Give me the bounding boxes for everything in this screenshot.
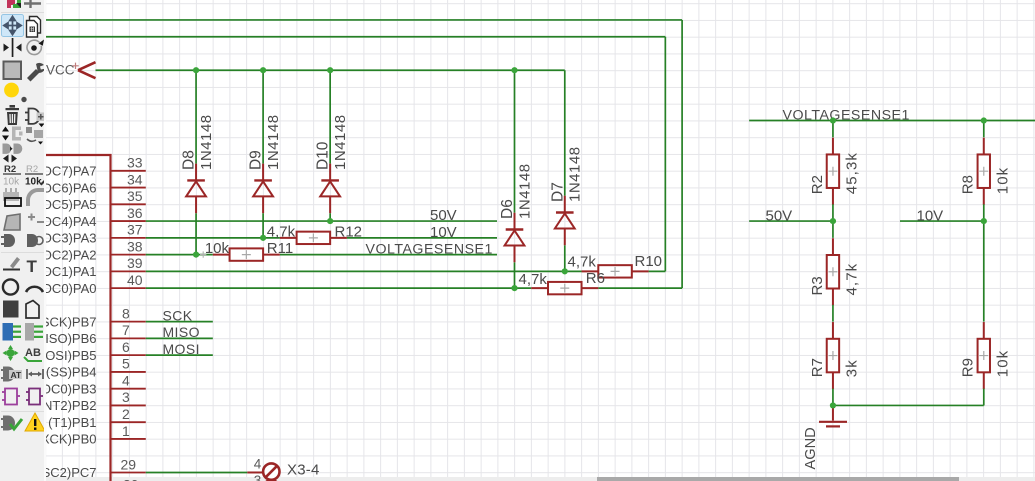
pin 39 (ADC1)PA1 xyxy=(30,255,146,279)
toolbar icon junction xyxy=(3,345,19,361)
svg-text:AT: AT xyxy=(11,370,23,380)
junction D7-PA1 xyxy=(562,268,568,274)
resistor R8 xyxy=(978,138,990,205)
pin 3 (INT2)PB2 xyxy=(35,389,146,413)
svg-text:R2: R2 xyxy=(809,175,826,194)
svg-text:4: 4 xyxy=(254,456,262,471)
svg-text:4,7k: 4,7k xyxy=(844,263,861,296)
toolbar icon circle xyxy=(3,279,18,294)
toolbar icon bus xyxy=(3,323,22,341)
svg-text:D7: D7 xyxy=(549,182,566,202)
svg-text:8: 8 xyxy=(122,305,130,321)
supply symbol VCC xyxy=(46,62,96,78)
pin 7 (MISO)PB6 xyxy=(30,322,146,346)
resistor R12 xyxy=(280,232,347,244)
toolbar icon gate right xyxy=(27,234,43,247)
junction VCC-D8 xyxy=(193,67,199,73)
svg-text:R8: R8 xyxy=(960,175,977,194)
ground symbol AGND xyxy=(803,405,847,469)
svg-text:VOLTAGESENSE1: VOLTAGESENSE1 xyxy=(366,242,493,258)
wire R3 to R7 xyxy=(832,305,834,322)
toolbar icon move (selected) xyxy=(2,15,24,37)
svg-text:(OC0)PB3: (OC0)PB3 xyxy=(46,381,97,396)
svg-text:4,7k: 4,7k xyxy=(519,271,548,288)
wire PC7 to X3-4 xyxy=(146,471,248,473)
svg-text:37: 37 xyxy=(127,222,143,238)
svg-text:SCK: SCK xyxy=(163,307,193,323)
svg-text:R3: R3 xyxy=(809,276,826,295)
svg-text:(ADC7)PA7: (ADC7)PA7 xyxy=(46,164,97,179)
junction AGND xyxy=(830,402,836,408)
toolbar icon pinswap xyxy=(2,127,23,141)
wire D9 anode to PA3 net xyxy=(262,213,264,238)
svg-text:(MISO)PB6: (MISO)PB6 xyxy=(46,331,97,346)
wire net 50V right xyxy=(749,220,833,222)
wire net 50V left xyxy=(146,220,497,222)
toolbar icon arc xyxy=(26,287,43,292)
svg-text:R6: R6 xyxy=(586,270,605,287)
toolbar icon erc dim 2 xyxy=(26,389,43,405)
svg-text:(SS)PB4: (SS)PB4 xyxy=(46,365,97,380)
svg-text:(MOSI)PB5: (MOSI)PB5 xyxy=(46,348,97,363)
wire net PA1 to R10 xyxy=(146,270,582,272)
junction VCC-D9 xyxy=(260,67,266,73)
svg-text:(ADC5)PA5: (ADC5)PA5 xyxy=(46,197,97,212)
wire net PA0 loop top xyxy=(40,20,682,288)
toolbar icon attribute xyxy=(1,367,22,382)
svg-text:(ADC1)PA1: (ADC1)PA1 xyxy=(46,264,97,279)
resistor R9 xyxy=(978,322,990,389)
toolbar icon plus-minus xyxy=(28,214,44,223)
wire net PA1 loop top xyxy=(40,37,665,272)
svg-text:R11: R11 xyxy=(267,240,293,257)
pin 38 (ADC2)PA2 xyxy=(30,238,146,262)
svg-text:(SCK)PB7: (SCK)PB7 xyxy=(46,314,97,329)
toolbar icon erc dim 1 xyxy=(2,389,20,405)
svg-text:29: 29 xyxy=(121,456,137,472)
junction D10-PA4 xyxy=(327,218,333,224)
svg-text:(ADC2)PA2: (ADC2)PA2 xyxy=(46,247,97,262)
svg-text:D6: D6 xyxy=(499,199,516,219)
toolbar icon change (wrench) xyxy=(27,63,45,82)
svg-text:10V: 10V xyxy=(430,224,457,241)
svg-text:(ADC0)PA0: (ADC0)PA0 xyxy=(46,281,97,296)
svg-text:2: 2 xyxy=(122,406,130,422)
wire R8 to 10V node xyxy=(983,204,985,321)
svg-text:50V: 50V xyxy=(766,207,793,224)
wire net VOLTAGESENSE1 left xyxy=(146,254,497,256)
svg-text:4: 4 xyxy=(122,372,130,388)
svg-text:1N4148: 1N4148 xyxy=(332,114,349,170)
svg-text:10k: 10k xyxy=(994,167,1011,195)
toolbar icon polygon xyxy=(26,301,39,319)
pin 40 (ADC0)PA0 xyxy=(30,272,146,296)
junction D9-PA3 xyxy=(260,235,266,241)
resistor R6 xyxy=(531,282,598,294)
svg-text:X3-4: X3-4 xyxy=(287,462,320,479)
svg-text:1N4148: 1N4148 xyxy=(265,114,282,170)
wire net 10V left xyxy=(146,237,497,239)
toolbar icon draw line xyxy=(3,257,20,270)
wire net VOLTAGESENSE1 right xyxy=(749,121,1035,138)
svg-text:(T1)PB1: (T1)PB1 xyxy=(48,415,96,430)
pin 35 (ADC5)PA5 xyxy=(30,188,146,212)
wire net PA0 to R6 xyxy=(146,287,531,289)
junction D8-PA2 xyxy=(193,252,199,258)
svg-text:VCC: VCC xyxy=(46,63,75,78)
junction VCC-D6 xyxy=(511,67,517,73)
pin 37 (ADC3)PA3 xyxy=(30,222,146,246)
svg-text:1N4148: 1N4148 xyxy=(198,114,215,170)
svg-text:3k: 3k xyxy=(844,359,861,377)
svg-text:45,3k: 45,3k xyxy=(844,152,861,194)
toolbar icon label xyxy=(24,347,42,361)
junction D6-PA0 xyxy=(511,285,517,291)
pin 34 (ADC6)PA6 xyxy=(30,171,146,195)
pin 8 (SCK)PB7 xyxy=(37,305,146,329)
svg-text:AGND: AGND xyxy=(803,427,819,469)
svg-text:VOLTAGESENSE1: VOLTAGESENSE1 xyxy=(783,108,910,124)
svg-text:MOSI: MOSI xyxy=(163,341,200,357)
svg-text:10k: 10k xyxy=(994,350,1011,378)
svg-text:33: 33 xyxy=(127,155,143,171)
toolbar icon gateswap xyxy=(3,144,23,154)
wire net MOSI xyxy=(146,354,213,356)
wire net MISO xyxy=(146,337,213,339)
junction 50V-R3 xyxy=(830,218,836,224)
toolbar icon dimension xyxy=(27,369,43,379)
wire R9 to AGND wire xyxy=(833,389,984,406)
junction VS1-R2 xyxy=(830,117,836,123)
pin 2 (T1)PB1 xyxy=(48,406,146,430)
wire D7 anode to PA1 net xyxy=(564,245,566,271)
svg-text:10k: 10k xyxy=(3,177,20,188)
toolbar icon split xyxy=(4,214,20,230)
toolbar icon errors warning xyxy=(25,413,45,431)
wire 50V node to R3 xyxy=(832,221,834,238)
resistor R10 xyxy=(582,265,649,277)
svg-text:1N4148: 1N4148 xyxy=(567,146,584,202)
svg-text:50V: 50V xyxy=(430,207,457,224)
svg-text:T: T xyxy=(27,257,38,276)
toolbar icon delete (trash) xyxy=(6,105,20,125)
svg-text:R7: R7 xyxy=(809,358,826,377)
junction 10V-R9 xyxy=(981,218,987,224)
svg-text:36: 36 xyxy=(127,205,143,221)
toolbar icon group xyxy=(4,62,22,80)
svg-text:6: 6 xyxy=(122,339,130,355)
svg-text:R9: R9 xyxy=(960,358,977,377)
svg-text:D8: D8 xyxy=(181,150,198,170)
pin 36 (ADC4)PA4 xyxy=(30,205,146,229)
toolbar icon value xyxy=(25,164,46,188)
svg-text:3: 3 xyxy=(122,389,130,405)
resistor R2 xyxy=(827,138,839,205)
toolbar icon add part xyxy=(25,109,45,128)
toolbar icon mirror xyxy=(4,38,22,57)
toolbar icon name xyxy=(3,164,21,188)
diode D7 xyxy=(555,196,575,246)
toolbar icon net xyxy=(25,323,43,341)
svg-text:4,7k: 4,7k xyxy=(267,223,296,240)
svg-text:10k: 10k xyxy=(25,177,42,188)
diode D10 xyxy=(320,164,340,214)
diode D9 xyxy=(253,164,273,214)
connector pin X3-3 (partial at bottom edge) xyxy=(254,473,280,481)
svg-text:(TOSC2)PC7: (TOSC2)PC7 xyxy=(46,465,97,480)
svg-text:40: 40 xyxy=(127,272,143,288)
toolbar icon invert xyxy=(3,155,17,163)
pin 4 (OC0)PB3 xyxy=(37,372,146,396)
svg-text:(XCK)PB0: (XCK)PB0 xyxy=(46,432,97,447)
svg-text:AB: AB xyxy=(25,347,41,359)
svg-text:1: 1 xyxy=(122,423,130,439)
resistor R3 xyxy=(827,238,839,305)
wire net 10V right xyxy=(900,220,984,222)
svg-text:39: 39 xyxy=(127,255,143,271)
junction VCC-D10 xyxy=(327,67,333,73)
pin 5 (SS)PB4 xyxy=(46,356,146,380)
wire net SCK xyxy=(146,321,213,323)
toolbar icon paste (partial) xyxy=(7,0,21,8)
connector pin X3-4 xyxy=(247,456,319,480)
toolbar icon miter xyxy=(26,188,44,206)
wire VCC rail xyxy=(96,70,565,212)
wire D8 anode to PA2 net xyxy=(195,213,197,254)
toolbar icon erc check xyxy=(1,416,22,431)
svg-text:D9: D9 xyxy=(248,150,265,170)
svg-text:3: 3 xyxy=(254,473,262,481)
toolbar icon gate left xyxy=(1,234,15,247)
svg-text:7: 7 xyxy=(122,322,130,338)
svg-text:1N4148: 1N4148 xyxy=(516,163,533,219)
svg-text:38: 38 xyxy=(127,238,143,254)
pin 6 (MOSI)PB5 xyxy=(30,339,146,363)
toolbar icon rect xyxy=(3,301,19,318)
svg-text:30: 30 xyxy=(123,476,139,481)
pin 29 (TOSC2)PC7 xyxy=(19,456,145,480)
svg-text:10k: 10k xyxy=(205,240,230,257)
svg-text:(ADC3)PA3: (ADC3)PA3 xyxy=(46,231,97,246)
toolbar icon package xyxy=(3,188,21,206)
junction VS1-R8 xyxy=(981,117,987,123)
svg-text:5: 5 xyxy=(122,356,130,372)
toolbar icon copy xyxy=(27,17,41,38)
toolbar icon smash xyxy=(4,83,27,103)
toolbar icon wire (partial) xyxy=(24,0,41,8)
svg-text:R10: R10 xyxy=(635,253,663,270)
toolbar icon replace xyxy=(26,127,43,145)
wire R7 to AGND node xyxy=(832,389,834,406)
svg-text:(ADC6)PA6: (ADC6)PA6 xyxy=(46,180,97,195)
pin 33 (ADC7)PA7 xyxy=(30,155,146,179)
wire D6 anode to PA0 net xyxy=(514,262,516,288)
svg-text:4,7k: 4,7k xyxy=(568,254,597,271)
wire D10 anode to PA4 net xyxy=(329,213,331,221)
svg-text:MISO: MISO xyxy=(163,324,200,340)
wire R2 to 50V node xyxy=(832,204,834,221)
svg-text:(ADC4)PA4: (ADC4)PA4 xyxy=(46,214,97,229)
diode D6 xyxy=(505,213,525,263)
toolbar icon rotate xyxy=(27,40,44,55)
svg-text:R12: R12 xyxy=(335,223,363,240)
pin 1 (XCK)PB0 xyxy=(37,423,146,447)
diode D8 xyxy=(186,164,206,214)
svg-text:35: 35 xyxy=(127,188,143,204)
resistor R11 xyxy=(213,248,280,260)
IC ATmega (partial) xyxy=(40,155,111,481)
resistor R7 xyxy=(827,322,839,389)
svg-text:D10: D10 xyxy=(315,141,332,170)
svg-text:34: 34 xyxy=(127,171,143,187)
svg-text:(INT2)PB2: (INT2)PB2 xyxy=(46,398,97,413)
svg-text:10V: 10V xyxy=(917,207,944,224)
